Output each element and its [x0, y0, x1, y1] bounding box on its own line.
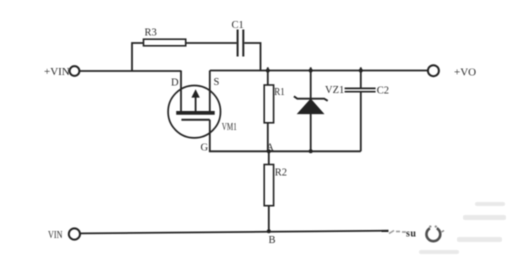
node B junction — [267, 229, 271, 233]
svg-text:+VO: +VO — [454, 67, 476, 79]
node C2 top junction — [359, 69, 363, 73]
terminal VIN — [69, 228, 80, 239]
capacitor C2 — [345, 67, 376, 151]
node A junction — [267, 149, 271, 153]
wire top rail S to +VO — [210, 70, 428, 72]
svg-text:VM1: VM1 — [222, 122, 237, 133]
node R1 top junction — [266, 69, 270, 73]
wire R3 branch left vertical — [132, 43, 144, 71]
svg-text:VIN: VIN — [48, 230, 63, 241]
wire bottom G-A rail — [209, 150, 361, 152]
svg-text:C2: C2 — [377, 85, 389, 96]
svg-text:R3: R3 — [145, 28, 157, 39]
node VZ1 bottom junction — [309, 149, 313, 153]
svg-text:R2: R2 — [275, 168, 287, 179]
wire pin S drop — [209, 71, 211, 113]
transistor VM1 — [168, 86, 220, 138]
svg-text:C1: C1 — [232, 20, 244, 31]
resistor R3 — [144, 39, 186, 46]
resistor R2 — [264, 151, 273, 231]
svg-text:su: su — [406, 229, 416, 240]
svg-text:S: S — [214, 77, 220, 88]
resistor R1 — [264, 67, 273, 151]
terminal +VO — [428, 65, 439, 76]
svg-text:D: D — [171, 78, 179, 89]
wire gate drop — [209, 120, 211, 152]
wire R3 to C1 — [186, 42, 237, 44]
svg-text:A: A — [266, 142, 274, 153]
wire bottom rail — [80, 231, 388, 234]
watermark — [389, 202, 506, 254]
zener diode VZ1 — [294, 67, 328, 151]
wire pin D drop — [180, 71, 182, 113]
svg-text:R1: R1 — [274, 87, 285, 98]
wire +VIN to drain corner — [80, 70, 181, 72]
terminal +VIN — [70, 66, 80, 76]
svg-text:VZ1: VZ1 — [325, 85, 344, 96]
svg-text:G: G — [201, 142, 209, 153]
capacitor C1 — [238, 30, 244, 57]
wire C1 to top rail — [244, 43, 260, 71]
svg-text:B: B — [269, 235, 276, 246]
svg-text:+VIN: +VIN — [44, 66, 70, 78]
node VZ1 top junction — [309, 69, 313, 73]
